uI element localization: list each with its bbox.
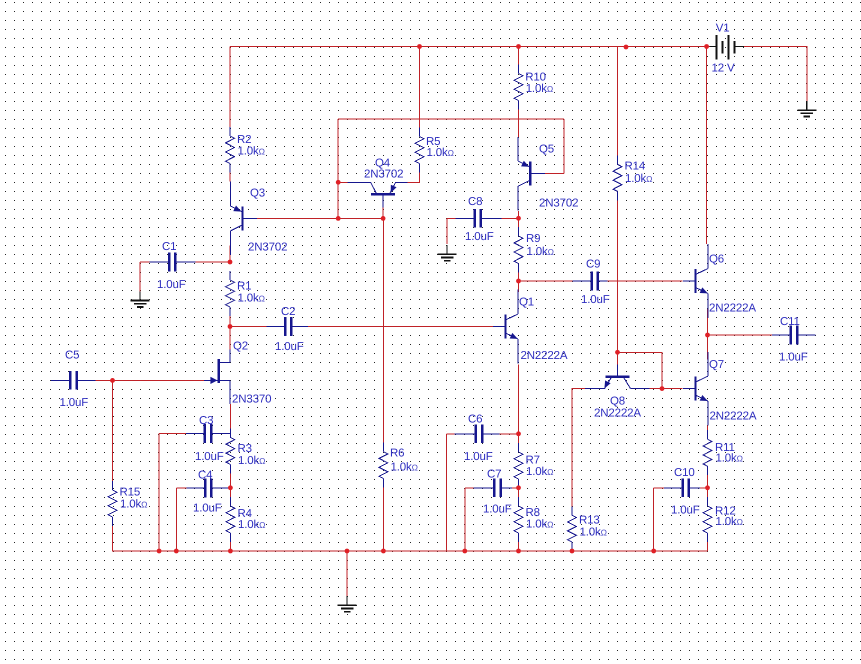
ground GND3 (bus) (338, 596, 357, 611)
wire C10 left stub (654, 487, 664, 489)
svg-text:1.0kΩ: 1.0kΩ (716, 516, 743, 528)
junction bus-R8 (516, 549, 521, 554)
svg-text:1.0uF: 1.0uF (779, 352, 808, 364)
svg-text:1.0uF: 1.0uF (157, 279, 186, 291)
transistor Q2 (2N3370 JFET) (204, 341, 271, 406)
svg-text:R3: R3 (238, 443, 252, 455)
wire ground bus (113, 550, 708, 552)
svg-text:1.0kΩ: 1.0kΩ (526, 466, 553, 478)
junction node D C2/R1/Q2 (228, 324, 233, 329)
wire R5 top (419, 47, 421, 128)
svg-text:1.0uF: 1.0uF (195, 451, 224, 463)
junction bus-R13 (570, 549, 575, 554)
wire R3 to node G (229, 473, 231, 487)
wire C9 to Q6 base (607, 280, 682, 282)
wire node C to C9 (519, 280, 573, 282)
svg-text:2N3370: 2N3370 (232, 394, 271, 406)
wire C6 left to bus (446, 434, 448, 551)
transistor Q6 (2N2222A NPN) (683, 244, 756, 318)
wire C4 left to bus (175, 488, 177, 551)
resistor R5 (415, 128, 454, 173)
svg-text:C1: C1 (162, 241, 176, 253)
capacitor C2 (266, 306, 308, 353)
wire Q2 source to R3 (229, 404, 231, 428)
junction node G C4/R3/R4 (228, 485, 233, 490)
wire R14 to Q8 (617, 200, 619, 352)
wire node G to R4 (229, 488, 231, 497)
junction bus-battery (704, 44, 709, 49)
wire C7 left to bus (464, 488, 466, 551)
ground GND1 (C1) (131, 292, 150, 307)
svg-text:1.0uF: 1.0uF (275, 341, 304, 353)
wire Q7 emitter to R11 (707, 426, 709, 431)
capacitor C11 (772, 316, 815, 364)
svg-text:1.0kΩ: 1.0kΩ (526, 83, 553, 95)
svg-text:2N2222A: 2N2222A (521, 350, 568, 362)
wire C7 right stub (512, 487, 519, 489)
junction node J Q6/Q7/C11 (705, 333, 710, 338)
svg-text:1.0kΩ: 1.0kΩ (527, 246, 554, 258)
junction bus-C3 (157, 549, 162, 554)
junction node I C7/R7/R8 (516, 485, 521, 490)
wire C1 left to ground (139, 262, 141, 292)
resistor R13 (568, 506, 607, 551)
wire R10 top (518, 47, 520, 65)
svg-text:2N3702: 2N3702 (248, 242, 287, 254)
svg-text:C8: C8 (468, 196, 482, 208)
capacitor C7 (473, 469, 512, 516)
wire R15 to bus (112, 526, 114, 552)
wire C7 left stub (465, 487, 474, 489)
svg-text:1.0kΩ: 1.0kΩ (391, 462, 418, 474)
ground GND4 (battery) (797, 101, 816, 116)
wire R1 bottom (229, 316, 231, 327)
wire link to Q7 base (662, 388, 683, 390)
wire R12 to bus (707, 542, 709, 551)
svg-text:1.0kΩ: 1.0kΩ (716, 453, 743, 465)
svg-text:Q2: Q2 (233, 341, 248, 353)
svg-text:C11: C11 (780, 316, 800, 328)
svg-text:2N3702: 2N3702 (364, 169, 403, 181)
junction bus-C7 (462, 549, 467, 554)
wire Q8 collector stub (650, 388, 663, 390)
resistor R15 (108, 481, 147, 526)
wire R10 to Q5 emitter (518, 110, 520, 138)
wire to Q5 base (545, 173, 564, 175)
capacitor C4 (186, 470, 229, 515)
capacitor C1 (149, 241, 195, 291)
transistor Q4 (2N3702 PNP rotated) (348, 158, 408, 208)
capacitor C6 (455, 414, 500, 464)
svg-text:Q8: Q8 (610, 396, 625, 408)
svg-text:1.0kΩ: 1.0kΩ (238, 455, 265, 467)
capacitor C8 (456, 196, 502, 243)
transistor Q1 (2N2222A NPN) (493, 290, 568, 364)
wire bus to ground (346, 551, 348, 596)
wire Q8 node to Q7 base link (618, 352, 663, 388)
svg-text:2N3702: 2N3702 (539, 198, 578, 210)
svg-text:1.0uF: 1.0uF (483, 504, 512, 516)
svg-text:R13: R13 (579, 515, 600, 527)
resistor R2 (226, 127, 265, 173)
wire C3 left stub (159, 433, 186, 435)
junction node E C1/R1 (228, 260, 233, 265)
wire C10 right stub (700, 487, 708, 489)
svg-text:C3: C3 (199, 415, 213, 427)
svg-text:1.0kΩ: 1.0kΩ (427, 147, 454, 159)
wire Q6 emitter to node J (707, 309, 709, 335)
wire node A horizontal (338, 217, 383, 219)
wire Q4 base stub (382, 208, 384, 219)
svg-text:1.0kΩ: 1.0kΩ (238, 519, 265, 531)
junction Q4 collector (336, 180, 341, 185)
wire Q1 emitter to node H (518, 365, 520, 434)
svg-text:R9: R9 (526, 233, 540, 245)
svg-text:2N2222A: 2N2222A (594, 408, 641, 420)
wire C6 left stub (447, 433, 455, 435)
junction node H C6/Q1/R7 (516, 431, 521, 436)
svg-text:1.0uF: 1.0uF (581, 294, 610, 306)
svg-text:Q6: Q6 (709, 254, 724, 266)
transistor Q5 (2N3702 PNP) (518, 137, 578, 211)
junction node K R11/C10/R12 (705, 485, 710, 490)
wire C1 to node E (196, 261, 230, 263)
svg-text:1.0kΩ: 1.0kΩ (120, 499, 147, 511)
wire R2 to Q3 emitter (229, 173, 231, 182)
wire Q5 collector down (518, 211, 520, 218)
junction bus-R5 (417, 44, 422, 49)
wire node F to R15 (112, 380, 114, 481)
svg-text:V1: V1 (716, 23, 730, 35)
svg-text:Q5: Q5 (539, 144, 554, 156)
junction bus-R14 (624, 45, 629, 50)
wire R14 top (617, 47, 619, 156)
wire feedback vertical x338 (337, 119, 339, 218)
wire node J to C11 (708, 334, 773, 336)
svg-text:1.0uF: 1.0uF (464, 451, 493, 463)
wire V+ to Q6 collector (706, 47, 708, 245)
wire C6 to node H (499, 433, 518, 435)
junction node B C8/R9 (516, 216, 521, 221)
wire feedback right vertical (563, 119, 565, 174)
svg-text:C4: C4 (198, 470, 213, 482)
wire Q4 emitter to R5 (408, 173, 420, 183)
svg-text:C9: C9 (586, 259, 600, 271)
junction bus-R6 (381, 549, 386, 554)
capacitor C5 (51, 350, 96, 410)
wire R8 to bus (518, 542, 520, 551)
wire node D to Q2 drain (229, 327, 231, 350)
svg-text:Q1: Q1 (519, 297, 534, 309)
junction Q8 base (615, 350, 620, 355)
wire R6 to bus (382, 488, 384, 552)
resistor R6 (379, 443, 418, 488)
svg-text:1.0uF: 1.0uF (60, 397, 89, 409)
transistor Q3 (2N3702 PNP) (230, 182, 287, 256)
svg-text:R7: R7 (526, 455, 540, 467)
junction bus-R4 (228, 549, 233, 554)
svg-text:R6: R6 (390, 448, 404, 460)
svg-text:1.0kΩ: 1.0kΩ (625, 173, 652, 185)
svg-text:2N2222A: 2N2222A (709, 303, 756, 315)
junction bus-C10 (651, 549, 656, 554)
capacitor C3 (186, 415, 230, 463)
wire node A to R6 (382, 218, 384, 442)
transistor Q8 (2N2222A NPN rotated) (585, 365, 649, 420)
wire node D to C2 (230, 326, 266, 328)
wire node B to R9 (518, 218, 520, 227)
resistor R1 (226, 271, 265, 316)
resistor R14 (613, 155, 652, 200)
wire R4 to bus (229, 542, 231, 551)
junction bus-R10 (516, 44, 521, 49)
wire C8 to node B (502, 217, 519, 219)
junction Q7 base link (660, 386, 665, 391)
junction Q4 base (381, 216, 386, 221)
wire Q8 emitter to R13 (572, 389, 585, 507)
resistor R10 (514, 65, 553, 110)
wire C10 left to bus (653, 488, 655, 551)
svg-text:R14: R14 (625, 161, 646, 173)
wire node K to R12 (707, 488, 709, 497)
svg-text:12 V: 12 V (712, 63, 736, 75)
wire R11 to node K (707, 475, 709, 488)
svg-text:Q3: Q3 (250, 188, 265, 200)
svg-text:C10: C10 (674, 467, 695, 479)
transistor Q7 (2N2222A NPN) (683, 352, 757, 426)
svg-text:R15: R15 (120, 487, 141, 499)
svg-text:R2: R2 (237, 134, 251, 146)
wire Q4 collector stub (338, 181, 347, 183)
wire Q3 base to node (257, 217, 338, 219)
battery V1 (12 V) (709, 23, 744, 75)
svg-text:1.0kΩ: 1.0kΩ (580, 527, 607, 539)
wire node I to R8 (518, 488, 520, 497)
wire C4 left stub (176, 487, 186, 489)
wire node C to Q1 collector (518, 281, 520, 292)
resistor R11 (703, 430, 743, 475)
junction bus-ground (345, 549, 350, 554)
wire C5 to node F (96, 379, 113, 381)
wire C3 left to bus (158, 434, 160, 552)
capacitor C10 (664, 467, 700, 517)
wire node H to R7 (518, 434, 520, 443)
svg-text:1.0uF: 1.0uF (671, 505, 700, 517)
wire node F to Q2 gate (113, 379, 205, 381)
svg-text:1.0kΩ: 1.0kΩ (526, 519, 553, 531)
wire battery negative to ground (744, 47, 807, 102)
wire V+ top bus (230, 46, 709, 48)
resistor R4 (226, 497, 265, 542)
svg-text:C7: C7 (487, 469, 501, 481)
svg-text:C2: C2 (281, 306, 295, 318)
wire feedback top horizontal (338, 118, 564, 120)
svg-text:R1: R1 (237, 281, 251, 293)
svg-text:R8: R8 (526, 507, 540, 519)
wire R9 to node C (518, 273, 520, 282)
svg-text:C5: C5 (65, 350, 79, 362)
wire R2 top (229, 47, 231, 128)
svg-text:2N2222A: 2N2222A (710, 411, 757, 423)
resistor R8 (514, 497, 553, 542)
wire C8 left to ground (447, 218, 456, 244)
junction node A left (336, 216, 341, 221)
wire node J to Q7 collector (707, 335, 709, 359)
resistor R12 (703, 497, 743, 542)
wire Q8 base stub (617, 352, 619, 364)
svg-text:1.0kΩ: 1.0kΩ (238, 293, 265, 305)
capacitor C9 (573, 259, 610, 307)
junction bus-C4 (174, 549, 179, 554)
svg-text:1.0kΩ: 1.0kΩ (238, 146, 265, 158)
ground GND2 (C8) (438, 245, 457, 260)
resistor R7 (514, 443, 553, 488)
svg-text:1.0uF: 1.0uF (193, 503, 222, 515)
junction node F C5/R15 (110, 378, 115, 383)
wire C2 to Q1 base (308, 326, 493, 328)
resistor R9 (514, 227, 554, 273)
svg-text:C6: C6 (468, 414, 482, 426)
wire Q3 collector to node E (229, 246, 231, 263)
svg-text:R10: R10 (525, 72, 546, 84)
junction node C R9/C9/Q1 (516, 279, 521, 284)
svg-text:Q7: Q7 (709, 359, 724, 371)
svg-text:1.0uF: 1.0uF (465, 231, 494, 243)
resistor R3 (226, 428, 265, 473)
wire C1 left stub (140, 261, 149, 263)
